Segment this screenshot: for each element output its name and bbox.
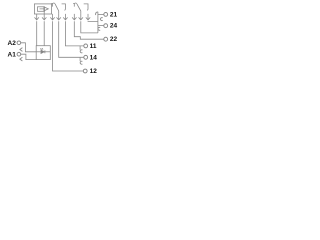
wire pin to terminal 14 <box>59 21 84 57</box>
contact 1 blade <box>55 4 59 14</box>
pin 14 stub and arrow <box>57 14 61 20</box>
contact 2 blade <box>77 4 81 14</box>
contact 2 top arc <box>74 2 77 5</box>
diode line through box <box>36 51 50 53</box>
branch to circle 21 <box>98 13 104 15</box>
contact 2 NO bracket <box>84 4 88 10</box>
terminal circle 24 <box>104 24 108 28</box>
LED diode triangle <box>41 50 44 53</box>
input circuit box <box>36 46 50 60</box>
bridge shaft at terminals 21-24 <box>97 12 99 33</box>
svg-text:A1: A1 <box>8 51 17 58</box>
terminal circle 12 <box>83 69 87 73</box>
svg-text:12: 12 <box>90 68 98 75</box>
wire pin to terminal 11 <box>65 21 83 46</box>
contact 1 NC tick and stub <box>51 4 52 7</box>
svg-text:14: 14 <box>90 54 98 61</box>
LED arrows <box>40 48 43 50</box>
pin 22 stub and arrow <box>72 14 76 20</box>
terminal circle 21 <box>104 13 108 17</box>
bridge fork at A2 <box>20 48 23 52</box>
diode cathode bar <box>44 50 46 53</box>
bridge slot hook below terminal 21 branch <box>100 18 102 21</box>
svg-text:21: 21 <box>110 11 118 18</box>
pin 21 stub and arrow <box>79 14 83 20</box>
bridge slot hook at terminal 21 <box>96 12 98 15</box>
pin A2 stub and arrow <box>35 14 39 20</box>
wire pin to terminal 21 <box>88 20 98 22</box>
contact 1 NO bracket <box>62 4 66 10</box>
pin 24 stub and arrow <box>86 14 90 20</box>
wire coil A2 down to input box <box>36 21 38 46</box>
svg-text:22: 22 <box>110 36 118 43</box>
pin A1 stub and arrow <box>42 14 46 20</box>
terminal circle 14 <box>84 55 88 59</box>
wire coil A1 down to input box <box>43 21 45 46</box>
pin 11 stub and arrow <box>63 14 67 20</box>
bridge slot hook at terminal 24 <box>98 27 100 30</box>
bridge slot drop and hook at terminal 11 <box>79 46 81 50</box>
relay icon inside box <box>38 7 45 12</box>
terminal circle 22 <box>104 37 108 41</box>
pin 12 stub and arrow <box>50 14 54 20</box>
terminal circle 11 <box>84 44 88 48</box>
svg-text:24: 24 <box>110 23 118 30</box>
svg-text:11: 11 <box>90 43 97 50</box>
wire A2 to input box <box>21 43 37 52</box>
svg-text:A2: A2 <box>8 40 17 47</box>
contact 2 NC tick and stub <box>73 4 74 7</box>
relay icon tail to box bottom <box>43 11 45 14</box>
wire pin to terminal 12 <box>53 21 84 71</box>
wire pin to terminal 24 <box>81 21 98 33</box>
bridge fork at A1 <box>20 57 23 61</box>
branch to circle 24 <box>98 25 104 27</box>
contact 1 top arc <box>53 2 56 5</box>
wire pin to terminal 22 (jog) <box>74 21 103 39</box>
relay icon arrow <box>40 7 49 11</box>
terminal circle A1 <box>17 52 21 56</box>
relay coil box K1 <box>34 4 51 14</box>
terminal circle A2 <box>17 41 21 45</box>
wire A1 to input box <box>21 54 37 59</box>
bridge slot drop and hook at terminal 14 <box>79 57 81 61</box>
